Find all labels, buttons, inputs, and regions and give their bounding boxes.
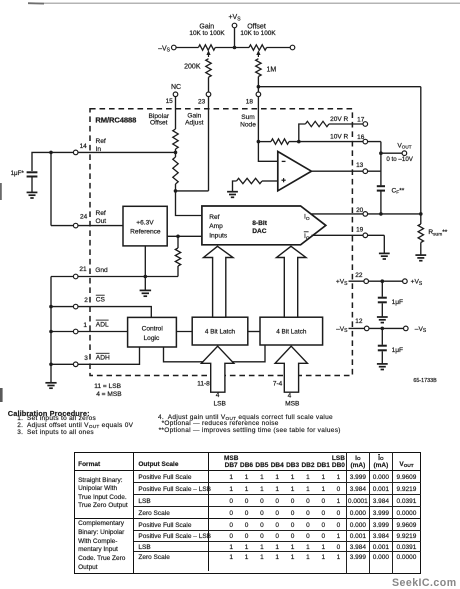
svg-text:Rsum**: Rsum**	[428, 229, 447, 237]
junction node A	[174, 189, 178, 193]
wire C12 to ground	[381, 351, 383, 363]
wire CS	[51, 307, 151, 318]
svg-text:10K to 100K: 10K to 100K	[240, 30, 276, 37]
wire to node A	[175, 184, 177, 191]
svg-text:Gain: Gain	[187, 113, 201, 120]
pin 22 terminal	[364, 279, 369, 284]
wire 10V R to pin 16	[289, 141, 381, 143]
schematic drawing	[0, 0, 460, 412]
scan artifact left 2	[0, 388, 3, 402]
svg-text:21: 21	[79, 266, 87, 273]
svg-text:0 to –10V: 0 to –10V	[386, 156, 413, 163]
svg-text:ADL: ADL	[96, 322, 109, 329]
wire node B to right rail	[258, 86, 420, 88]
svg-text:Ref: Ref	[96, 210, 106, 217]
wire up to 20V R	[299, 124, 306, 142]
junction pin 12 cap	[381, 327, 385, 331]
svg-text:19: 19	[356, 227, 364, 234]
calibration steps left column	[17, 416, 133, 437]
resistor 200K	[206, 59, 211, 77]
wire control to latch1	[176, 331, 192, 333]
wire 200K to pin 23	[208, 77, 210, 92]
potentiometer gain 10K-100K element	[198, 45, 215, 50]
wire ref out	[51, 225, 123, 227]
wire reference to DAC amp input	[167, 235, 202, 237]
wire control to latch enable	[164, 345, 266, 362]
junction reference gnd	[144, 275, 148, 279]
wire sum to 10V R	[258, 141, 271, 143]
op-amp plus sign	[282, 179, 286, 181]
svg-text:4: 4	[288, 392, 292, 399]
ground pin 19	[379, 252, 390, 254]
pin 16 terminal	[363, 139, 368, 144]
wire between pots	[215, 47, 249, 49]
svg-text:LSB: LSB	[213, 401, 226, 408]
wire Vout	[381, 152, 402, 154]
svg-text:–VS: –VS	[158, 45, 171, 53]
terminal +Vs	[232, 23, 237, 28]
pin 19 terminal	[363, 233, 368, 238]
junction ref-in bus	[49, 151, 53, 155]
svg-text:4 Bit Latch: 4 Bit Latch	[276, 329, 307, 336]
svg-text:20V R: 20V R	[330, 116, 348, 123]
wire Io-bar to pin 19	[312, 234, 385, 236]
svg-text:1μF*: 1μF*	[11, 170, 25, 177]
block 8-Bit DAC	[202, 206, 326, 245]
pin 24 terminal	[73, 223, 78, 228]
watermark SeekIC.com	[392, 577, 457, 589]
wire pin 12	[349, 327, 404, 329]
svg-text:1: 1	[83, 322, 87, 329]
wire to cap C12	[381, 328, 383, 344]
svg-text:Logic: Logic	[144, 335, 160, 342]
svg-text:+6.3V: +6.3V	[136, 219, 154, 226]
svg-text:–VS: –VS	[336, 326, 348, 334]
pin 17 terminal	[363, 122, 368, 127]
junction node B	[257, 85, 261, 89]
svg-text:7-4: 7-4	[273, 380, 283, 387]
wire down to ref resistor	[177, 236, 179, 248]
junction feedback node	[297, 140, 301, 144]
svg-text:4 Bit Latch: 4 Bit Latch	[205, 329, 236, 336]
svg-text:13: 13	[356, 162, 364, 169]
svg-text:1μF: 1μF	[392, 299, 404, 306]
wire C22 to ground	[381, 303, 383, 316]
svg-text:CS: CS	[96, 297, 106, 304]
capacitor C22 1uF	[378, 297, 387, 299]
resistor 10V R	[271, 139, 289, 144]
bus arrow data inputs LSB	[201, 346, 233, 392]
svg-text:2: 2	[84, 297, 88, 304]
svg-text:65-1733B: 65-1733B	[413, 378, 437, 384]
wire pin 19 to ground	[383, 235, 385, 253]
wire offset pot right	[267, 47, 291, 49]
svg-text:DAC: DAC	[252, 228, 267, 235]
svg-text:4 = MSB: 4 = MSB	[96, 391, 122, 398]
capacitor C1 1uF*	[27, 171, 38, 173]
pin 2 terminal	[73, 304, 78, 309]
svg-text:20: 20	[356, 207, 364, 214]
calibration steps right column	[158, 415, 341, 434]
junction Vout tap	[379, 151, 383, 155]
wire to cap C22	[381, 281, 383, 297]
bus arrow data inputs MSB	[275, 346, 307, 392]
wire left bus 14-24	[50, 152, 52, 225]
junction ADL bus	[49, 330, 53, 334]
svg-text:11 = LSB: 11 = LSB	[94, 383, 121, 390]
resistor Rsum**	[418, 224, 423, 243]
svg-text:NC: NC	[171, 84, 181, 91]
pin 14 terminal	[73, 150, 78, 155]
wire sum to op-amp inverting	[258, 142, 277, 162]
wire left bus lower	[50, 277, 52, 383]
wire ref resistor to gnd rail	[177, 266, 179, 277]
svg-text:23: 23	[198, 99, 206, 106]
wire latch1 to latch2	[248, 331, 260, 333]
svg-text:Gnd: Gnd	[95, 267, 108, 274]
svg-text:1M: 1M	[267, 66, 277, 73]
wire node B to pin 18	[257, 87, 259, 93]
block 4 Bit Latch MSB	[260, 317, 323, 345]
wire node A to DAC ref input	[176, 191, 202, 216]
pin 12 terminal	[364, 326, 369, 331]
svg-text:VOUT: VOUT	[397, 142, 411, 149]
bus arrow latch LSB to DAC	[204, 246, 234, 317]
resistor 1M	[256, 59, 261, 77]
wire 1M to node B	[257, 77, 259, 87]
ground reference	[140, 289, 152, 291]
op-amp minus sign	[282, 160, 286, 162]
svg-text:+VS: +VS	[228, 14, 241, 22]
svg-text:Out: Out	[96, 218, 107, 225]
wire -Vs to gain pot	[176, 47, 198, 49]
svg-text:Node: Node	[240, 121, 256, 128]
svg-text:Sum: Sum	[241, 114, 255, 121]
wire Rsum to ground	[420, 243, 422, 255]
wire ADL	[51, 331, 128, 333]
svg-text:16: 16	[357, 134, 365, 141]
junction +Vs node	[233, 46, 237, 50]
ground C12	[377, 363, 388, 365]
ground C22	[377, 316, 388, 318]
svg-text:Control: Control	[142, 326, 164, 333]
ground left bus	[45, 382, 56, 384]
svg-text:15: 15	[166, 98, 174, 105]
wire reference bottom	[144, 246, 146, 290]
pin 23 terminal	[206, 92, 211, 97]
svg-text:Adjust: Adjust	[185, 120, 203, 127]
svg-text:11-8: 11-8	[197, 380, 210, 387]
svg-text:14: 14	[80, 143, 88, 150]
pin 1 terminal	[73, 329, 78, 334]
pin 18 terminal	[256, 92, 261, 97]
IC RM/RC4888 dashed outline	[90, 109, 352, 376]
pin 15 NC terminal	[173, 92, 178, 97]
wire right rail down to Io node	[420, 87, 422, 214]
svg-text:–VS: –VS	[415, 326, 427, 334]
wire pin 15 to bipolar resistor	[175, 97, 177, 130]
block 4 Bit Latch LSB	[192, 317, 248, 345]
wire +Vs to pots	[234, 28, 236, 48]
calibration procedure heading	[8, 409, 90, 418]
resistor ref amp	[175, 248, 180, 266]
junction Io Rsum node	[419, 212, 423, 216]
svg-text:Ref: Ref	[209, 214, 219, 221]
svg-text:1μF: 1μF	[392, 347, 404, 354]
wire pin 22	[349, 280, 403, 282]
ground Rsum	[415, 254, 426, 256]
wire output node vertical upper	[380, 142, 382, 186]
terminal -Vs	[172, 45, 177, 50]
wire Rsum top	[420, 214, 422, 224]
svg-text:17: 17	[357, 117, 365, 124]
terminal offset right	[290, 45, 295, 50]
svg-text:CF**: CF**	[392, 187, 405, 195]
wire ref in	[51, 151, 176, 153]
svg-text:Amp: Amp	[209, 223, 223, 230]
potentiometer offset 10K-100K element	[249, 45, 267, 50]
wire bipolar chain mid	[175, 149, 177, 157]
wire pin 18 sum node	[257, 97, 259, 142]
resistor 20V R	[305, 121, 329, 126]
svg-text:200K: 200K	[184, 64, 201, 71]
svg-text:+VS: +VS	[336, 278, 348, 286]
terminal Vout	[402, 151, 407, 156]
svg-text:12: 12	[355, 318, 363, 325]
pin 13 terminal	[363, 169, 368, 174]
wire gnd rail	[51, 276, 178, 278]
wire output node vertical lower	[380, 192, 382, 214]
wire pin 23 into box to node A	[208, 97, 210, 191]
pin 3 terminal	[73, 362, 78, 367]
block +6.3V Reference	[123, 206, 167, 246]
wire to cap C1	[32, 152, 51, 171]
terminal +Vs external	[403, 279, 408, 284]
svg-text:24: 24	[80, 214, 88, 221]
offset pot wiper arrow	[257, 54, 259, 58]
capacitor CF**	[377, 185, 385, 187]
page top rule	[28, 2, 460, 4]
capacitor C12 1uF	[378, 345, 387, 347]
block Control Logic	[128, 317, 177, 347]
ground op-amp plus	[227, 191, 238, 193]
scan artifact left 1	[0, 183, 2, 200]
svg-text:In: In	[96, 146, 102, 153]
svg-text:Offset: Offset	[150, 120, 168, 127]
svg-text:Reference: Reference	[130, 229, 161, 236]
junction ref-in node	[174, 151, 178, 155]
svg-text:ADH: ADH	[96, 355, 110, 362]
terminal -Vs external	[404, 326, 409, 331]
svg-text:4: 4	[216, 392, 220, 399]
junction CS bus	[49, 305, 53, 309]
svg-text:10V R: 10V R	[330, 134, 348, 141]
gain pot wiper arrow	[208, 54, 210, 58]
svg-text:3: 3	[84, 355, 88, 362]
pin 21 terminal	[73, 274, 78, 279]
wire resistor to plus input	[262, 180, 278, 182]
op-amp U1	[278, 152, 312, 191]
wire ground to plus resistor	[233, 181, 237, 192]
svg-text:22: 22	[355, 272, 363, 279]
svg-text:RM/RC4888: RM/RC4888	[95, 116, 136, 125]
svg-text:MSB: MSB	[285, 401, 300, 408]
junction output to Io	[379, 212, 383, 216]
svg-text:8-Bit: 8-Bit	[252, 220, 267, 227]
wire 20V R to pin 17	[329, 123, 363, 125]
wire Io to pin 20	[312, 213, 421, 215]
svg-text:18: 18	[246, 99, 254, 106]
resistor bipolar offset upper	[173, 129, 178, 149]
bus arrow latch MSB to DAC	[277, 246, 307, 317]
ground C1	[27, 191, 38, 193]
resistor bipolar offset lower	[173, 157, 178, 184]
pin 20 terminal	[363, 212, 368, 217]
wire op-amp output to pin 13	[311, 170, 381, 172]
svg-text:10K to 100K: 10K to 100K	[189, 30, 225, 37]
svg-text:+VS: +VS	[411, 278, 423, 286]
svg-text:Inputs: Inputs	[209, 232, 228, 239]
junction sum node	[257, 140, 261, 144]
resistor op-amp plus	[237, 178, 263, 183]
junction ref amp node	[176, 235, 180, 239]
wire node A to pin23 line	[176, 190, 209, 192]
table column separator line	[208, 452, 209, 571]
junction pin 22 cap	[381, 279, 385, 283]
wire ADH	[51, 347, 140, 364]
wire C1 to ground	[31, 178, 33, 193]
junction ADH bus	[49, 363, 53, 367]
svg-text:Ref: Ref	[96, 138, 106, 145]
logic input coding table	[74, 452, 421, 573]
